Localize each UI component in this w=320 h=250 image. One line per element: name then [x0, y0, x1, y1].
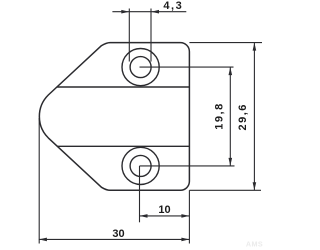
- svg-text:10: 10: [158, 204, 170, 216]
- svg-text:30: 30: [112, 228, 124, 240]
- dimension 29,6: dimension line: [253, 43, 255, 191]
- body top edge line: [57, 86, 189, 88]
- hole bottom: counterbore outer circle: [122, 147, 159, 184]
- dimension 19,8: arrow up: [229, 67, 233, 75]
- body bottom edge line: [58, 145, 190, 147]
- dimension 30: arrow right: [181, 238, 189, 242]
- dimension 4,3: arrow pointing right at left ext: [121, 10, 129, 14]
- dimension 10: arrow right: [181, 214, 189, 218]
- part outline (bracket body with rounded nose): [39, 43, 189, 191]
- dimension 30: arrow left: [39, 238, 47, 242]
- dimension 19,8: dimension line: [229, 67, 231, 166]
- svg-text:19,8: 19,8: [214, 102, 226, 129]
- svg-text:AMS: AMS: [246, 239, 263, 248]
- bottom edge extension line to right: [189, 189, 261, 191]
- right edge extension line downwards: [188, 190, 190, 243]
- dimension 19,8: arrow down: [229, 158, 233, 166]
- extension line from bottom hole centre downwards: [139, 166, 141, 222]
- dimension 4,3: arrow pointing left at right ext: [151, 10, 159, 14]
- dimension 4,3: extension line right: [150, 9, 152, 62]
- extension line from top hole centre to right: [140, 66, 234, 68]
- dimension 4,3: extension line left: [128, 9, 130, 62]
- svg-text:29,6: 29,6: [237, 103, 249, 130]
- dimension 30: dimension line: [39, 238, 190, 240]
- dimension 10: dimension line: [140, 215, 190, 217]
- dimension 29,6: arrow down: [253, 182, 257, 190]
- dimension 29,6: arrow up: [253, 43, 257, 51]
- extension line from bottom hole centre to right: [140, 165, 235, 167]
- hole top: inner circle: [130, 57, 151, 78]
- hole top: counterbore outer circle: [122, 49, 159, 86]
- top edge extension line to right: [189, 42, 262, 44]
- dimension 10: arrow left: [140, 214, 148, 218]
- left tip extension line downwards: [38, 118, 40, 244]
- svg-text:4,3: 4,3: [163, 0, 183, 12]
- dimension 4,3: dimension line: [112, 11, 186, 13]
- hole bottom: inner circle: [130, 155, 151, 176]
